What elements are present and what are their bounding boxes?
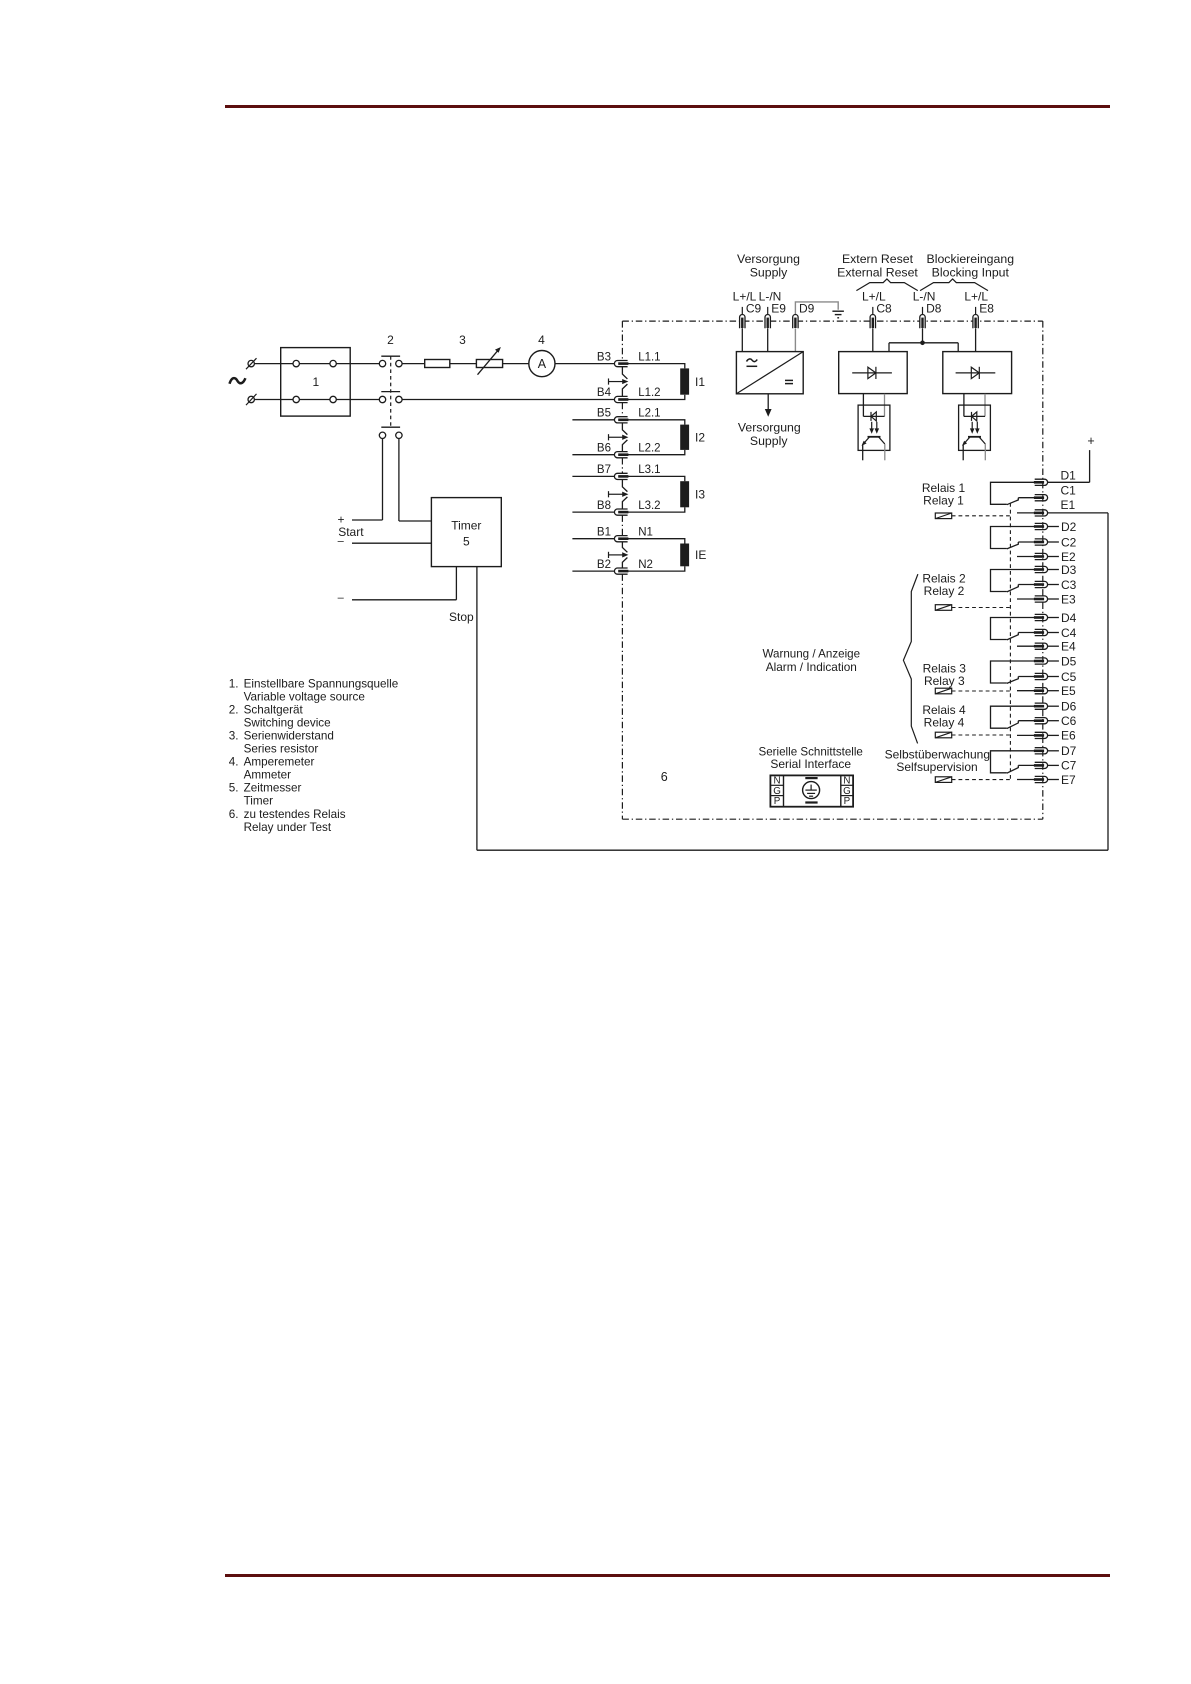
wire box1 to switch lower — [336, 399, 379, 401]
tick E5 — [1048, 690, 1059, 692]
svg-text:L3.1: L3.1 — [638, 464, 660, 476]
terminal D9 — [793, 315, 798, 329]
serial PE circle — [803, 782, 820, 799]
contact E6 wire — [1017, 734, 1035, 736]
svg-text:A: A — [538, 357, 547, 371]
label D4 — [1061, 611, 1077, 625]
label D1 — [1061, 468, 1077, 482]
contact E5 wire — [1017, 690, 1035, 692]
svg-text:I1: I1 — [695, 375, 705, 389]
contact E2 wire — [1017, 556, 1035, 558]
brace under External Reset — [856, 279, 917, 291]
svg-text:B1: B1 — [597, 526, 611, 538]
svg-text:B3: B3 — [597, 351, 611, 363]
label C4 — [1061, 626, 1077, 640]
blocking optocoupler light arrows — [970, 422, 980, 434]
svg-text:L3.2: L3.2 — [638, 500, 660, 512]
label 3 — [459, 333, 466, 347]
wire stub above C9 — [741, 307, 743, 315]
svg-text:B4: B4 — [597, 387, 612, 399]
label Start — [338, 525, 364, 539]
blocking optocoupler emitter leg — [962, 445, 964, 460]
svg-text:Amperemeter: Amperemeter — [244, 756, 315, 769]
Relay 4 coil linkage dashed — [952, 734, 1010, 736]
AC symbol in supply box — [747, 359, 758, 366]
contact E1 wire — [1017, 512, 1035, 514]
contact C3 wire — [1018, 584, 1034, 586]
tick E7 — [1048, 779, 1059, 781]
label Selbstüberwachung — [885, 748, 990, 762]
wire variable resistor to ammeter — [503, 363, 529, 365]
label L2.2 — [638, 442, 660, 454]
label - (stop minus) — [338, 592, 345, 604]
serial top bar — [805, 777, 817, 779]
svg-text:N2: N2 — [638, 559, 653, 571]
heading Supply — [750, 266, 788, 280]
label L1.2 — [638, 387, 660, 399]
source terminal lower (plug with slash) — [246, 394, 257, 405]
terminal C8 — [870, 315, 875, 329]
contact E7 wire — [1017, 779, 1035, 781]
wire right rail vertical — [1107, 513, 1109, 850]
svg-text:E9: E9 — [771, 301, 786, 315]
svg-text:E8: E8 — [979, 301, 994, 315]
serial right cell rows — [841, 785, 853, 795]
contact blade D4/C4 — [1007, 633, 1019, 640]
terminal C1 — [1034, 495, 1048, 501]
Selfsupervision coil linkage dashed — [952, 779, 1010, 781]
alarm group brace — [903, 574, 918, 743]
svg-text:Serial Interface: Serial Interface — [770, 757, 851, 771]
blocking input box — [943, 352, 1012, 394]
CT winding kink I1 lower — [622, 384, 627, 396]
label C8 — [876, 301, 892, 315]
label Selfsupervision — [896, 760, 977, 774]
svg-text:Relay under Test: Relay under Test — [244, 821, 332, 834]
svg-text:IE: IE — [695, 548, 706, 562]
serial letter G left — [773, 786, 781, 797]
wire junction to blocking box — [957, 343, 959, 352]
svg-text:L2.2: L2.2 — [638, 442, 660, 454]
label C5 — [1061, 670, 1077, 684]
tick D7 — [1048, 750, 1059, 752]
wire C9 down to supply box — [741, 328, 743, 351]
label Relay 2 — [924, 584, 965, 598]
wire switch pole3 left down — [382, 439, 384, 521]
tick C6 — [1048, 720, 1059, 722]
label L+/L (C8) — [862, 290, 886, 304]
wire switch to resistor 3 — [402, 363, 425, 365]
relay box 6 left edge seg B4-B5 (dash-dot) — [621, 403, 623, 417]
grey wire D9 down to supply box — [794, 328, 796, 351]
CT winding kink IE lower — [622, 558, 627, 568]
label B4 — [597, 387, 612, 399]
label E3 — [1061, 592, 1076, 606]
Relay 2 coil linkage dashed — [952, 607, 1010, 609]
svg-text:3: 3 — [459, 333, 466, 347]
contact E3 wire — [1017, 598, 1035, 600]
label E1 — [1061, 498, 1076, 512]
supply output arrow — [765, 394, 772, 417]
svg-text:Zeitmesser: Zeitmesser — [244, 782, 302, 795]
label Alarm / Indication — [766, 660, 857, 674]
svg-text:3.: 3. — [229, 730, 239, 743]
svg-text:B6: B6 — [597, 442, 611, 454]
svg-text:L1.1: L1.1 — [638, 351, 660, 363]
label L3.2 — [638, 500, 660, 512]
wire plus to switch pole3 — [352, 519, 383, 521]
label L2.1 — [638, 408, 660, 420]
heading Serielle Schnittstelle — [758, 745, 862, 758]
terminal D6 — [1034, 703, 1048, 709]
terminal D5 — [1034, 658, 1048, 664]
label Versorgung (below) — [738, 421, 801, 435]
svg-text:–: – — [338, 592, 345, 604]
svg-text:Versorgung: Versorgung — [738, 421, 801, 435]
svg-text:E2: E2 — [1061, 550, 1076, 564]
label Warnung / Anzeige — [763, 648, 861, 661]
svg-text:Serienwiderstand: Serienwiderstand — [244, 730, 334, 743]
ammeter 4 circle — [529, 351, 555, 377]
blocking optocoupler outline — [959, 405, 991, 450]
tick E6 — [1048, 734, 1059, 736]
AC source symbol ~ — [230, 378, 246, 384]
reset wire reset box to optocoupler left — [862, 394, 864, 417]
terminal E5 — [1034, 688, 1048, 694]
relay box 6 left edge seg below B2 (dash-dot) — [621, 574, 623, 819]
svg-text:I2: I2 — [695, 431, 705, 445]
label B6 — [597, 442, 611, 454]
label E2 — [1061, 550, 1076, 564]
serial letter G right — [843, 786, 851, 797]
svg-text:2: 2 — [387, 333, 394, 347]
CT winding kink IE upper — [622, 542, 627, 552]
terminal E2 — [1034, 553, 1048, 559]
svg-text:D7: D7 — [1061, 744, 1077, 758]
terminal E3 — [1034, 596, 1048, 602]
svg-text:B5: B5 — [597, 408, 611, 420]
current input block I1 — [680, 368, 689, 394]
svg-text:2.: 2. — [229, 703, 239, 716]
wire box1 internal lower — [299, 399, 330, 401]
svg-text:C7: C7 — [1061, 759, 1077, 773]
terminal C3 — [1034, 581, 1048, 587]
box1 contact lower-right — [330, 396, 336, 402]
wire B3 to burden I1 — [628, 364, 685, 369]
contact C2 wire — [1018, 541, 1034, 543]
serial PE symbol — [805, 785, 816, 797]
tick E4 — [1048, 645, 1059, 647]
svg-text:E3: E3 — [1061, 592, 1076, 606]
wire switch pole3 right down — [398, 439, 400, 522]
label 1 — [313, 375, 320, 389]
diode in blocking box — [956, 367, 996, 379]
terminal C7 — [1034, 762, 1048, 768]
blocking optocoupler collector leg — [984, 444, 986, 460]
switch 2 linkage bar bottom — [381, 426, 400, 428]
svg-text:Timer: Timer — [451, 519, 481, 533]
wire lower terminal to box 1 — [254, 399, 293, 401]
label C9 — [746, 301, 762, 315]
grey wire D9 to earth — [795, 302, 838, 314]
terminal B4 — [614, 396, 628, 402]
terminal E6 — [1034, 732, 1048, 738]
serial bottom bar — [805, 801, 817, 803]
brace under Blocking Input — [920, 279, 988, 291]
wire E9 down to supply box — [767, 328, 769, 351]
heading External Reset — [837, 266, 918, 280]
wire stub left of B6 — [572, 454, 614, 456]
label B8 — [597, 500, 611, 512]
wire burden I1 to B4 — [628, 395, 685, 400]
svg-text:B2: B2 — [597, 559, 611, 571]
tick E3 — [1048, 598, 1059, 600]
svg-text:D5: D5 — [1061, 654, 1077, 668]
relay under test box 6 top edge (dash-dot) — [622, 320, 1042, 322]
wire E8 down to blocking box — [975, 328, 977, 351]
terminal E1 — [1034, 510, 1048, 516]
serial interface box — [770, 775, 853, 806]
label B2 — [597, 559, 611, 571]
plus rail vertical — [1089, 450, 1091, 482]
label D9 — [799, 301, 815, 315]
contact D7 fixed wire — [991, 751, 1035, 773]
box1 contact upper-right — [330, 360, 336, 366]
svg-text:B7: B7 — [597, 464, 611, 476]
svg-text:E6: E6 — [1061, 729, 1076, 743]
terminal E8 — [973, 315, 978, 329]
label E7 — [1061, 773, 1076, 787]
wire stub left of B8 — [572, 511, 614, 513]
tick D6 — [1048, 705, 1059, 707]
current input block I2 — [680, 425, 689, 450]
svg-text:Relay 3: Relay 3 — [924, 674, 965, 688]
svg-text:C6: C6 — [1061, 714, 1077, 728]
label B7 — [597, 464, 611, 476]
CT winding kink I2 lower — [622, 440, 627, 452]
svg-text:Blocking Input: Blocking Input — [932, 266, 1010, 280]
label D3 — [1061, 563, 1077, 577]
wire B5 to burden I2 — [628, 420, 685, 425]
wire resistor to variable resistor — [450, 363, 477, 365]
terminal C6 — [1034, 718, 1048, 724]
switch 2 pole1 left contact — [379, 360, 385, 366]
current direction arrow I2 — [609, 434, 629, 440]
contact C7 wire — [1018, 764, 1034, 766]
blocking optocoupler phototransistor — [962, 437, 985, 446]
wire stub left of B5 — [572, 419, 614, 421]
Relay 1 coil linkage dashed — [952, 515, 1010, 517]
CT winding kink I3 upper — [622, 480, 627, 492]
wire lower row to terminal B4 — [402, 399, 614, 401]
contact D5 fixed wire — [991, 661, 1035, 683]
serial letter N right — [843, 776, 850, 787]
Relay 2 coil — [935, 605, 951, 611]
svg-text:5: 5 — [463, 535, 470, 549]
contact D3 fixed wire — [991, 570, 1035, 592]
wire start minus to timer — [352, 542, 431, 544]
switch 2 linkage bar top — [381, 355, 400, 357]
switch 2 pole3 right contact — [396, 432, 402, 438]
serial letter N left — [773, 776, 780, 787]
contact C6 wire — [1018, 720, 1034, 722]
earth symbol — [832, 311, 844, 318]
serial letter P right — [844, 796, 851, 807]
svg-text:D4: D4 — [1061, 611, 1077, 625]
wire B7 to burden I3 — [628, 476, 685, 481]
terminal D1 — [1034, 479, 1048, 485]
label C1 — [1061, 483, 1077, 497]
heading Extern Reset — [842, 252, 914, 266]
terminal E7 — [1034, 776, 1048, 782]
wire D8 down to junction — [922, 328, 924, 343]
terminal D8 — [920, 315, 925, 329]
svg-text:External Reset: External Reset — [837, 266, 918, 280]
label Relais 4 — [922, 703, 966, 717]
label C3 — [1061, 578, 1077, 592]
svg-text:Extern Reset: Extern Reset — [842, 252, 914, 266]
contact D1 fixed wire — [991, 482, 1035, 504]
terminal E9 — [765, 315, 770, 329]
svg-text:D2: D2 — [1061, 520, 1077, 534]
switch 2 pole3 left contact — [379, 432, 385, 438]
wire stub above C8 — [872, 307, 874, 315]
DC symbol in supply box — [785, 380, 793, 383]
label E9 — [771, 301, 786, 315]
svg-text:C5: C5 — [1061, 670, 1077, 684]
wire C8 down to reset box — [872, 328, 874, 351]
terminal B2 — [614, 568, 628, 574]
svg-text:L2.1: L2.1 — [638, 408, 660, 420]
label L-/N (E9) — [759, 290, 782, 304]
svg-text:D8: D8 — [926, 301, 942, 315]
external reset input box — [839, 352, 908, 394]
variable voltage source box 1 — [281, 348, 351, 417]
label Relais 1 — [922, 481, 966, 495]
serial left cell rows — [770, 785, 783, 795]
svg-text:Series resistor: Series resistor — [244, 743, 319, 756]
legend list — [229, 677, 398, 834]
label Timer — [451, 519, 481, 533]
wire junction horizontal — [889, 342, 958, 344]
svg-text:Selfsupervision: Selfsupervision — [896, 760, 977, 774]
serial letter P left — [774, 796, 781, 807]
svg-text:C3: C3 — [1061, 578, 1077, 592]
label Relay 4 — [924, 716, 965, 730]
relay box 6 right edge (dash-dot) — [1042, 321, 1044, 819]
svg-text:Versorgung: Versorgung — [737, 252, 800, 266]
tick C5 — [1048, 676, 1059, 678]
wire switch pole3 to timer — [399, 520, 432, 522]
switch 2 linkage bar middle — [381, 391, 400, 393]
label - (start minus) — [338, 535, 345, 547]
reset optocoupler outline — [858, 405, 890, 450]
current direction arrow I3 — [609, 491, 629, 497]
terminal B1 — [614, 536, 628, 542]
tick C2 — [1048, 541, 1059, 543]
junction dot D8 — [920, 341, 925, 346]
wire stub above E9 — [767, 307, 769, 315]
label C2 — [1061, 535, 1077, 549]
svg-text:–: – — [338, 535, 345, 547]
label I2 — [695, 431, 705, 445]
relay box 6 left edge seg above B3 (dash-dot) — [621, 321, 623, 360]
label 6 — [661, 770, 668, 784]
relay box 6 left edge seg B8-B1 (dash-dot) — [621, 515, 623, 535]
current direction arrow I1 — [609, 378, 629, 384]
label I1 — [695, 375, 705, 389]
contact D6 fixed wire — [991, 706, 1035, 728]
terminal D7 — [1034, 748, 1048, 754]
svg-text:D3: D3 — [1061, 563, 1077, 577]
svg-text:Timer: Timer — [244, 795, 274, 808]
tick D4 — [1048, 617, 1059, 619]
power supply box — [736, 352, 803, 394]
label Relay 3 — [924, 674, 965, 688]
wire E1 to right rail — [1048, 512, 1108, 514]
label C6 — [1061, 714, 1077, 728]
switch 2 linkage dashed line — [390, 356, 392, 427]
svg-text:Supply: Supply — [750, 266, 788, 280]
current direction arrow IE — [609, 552, 629, 558]
wire stub left of B2 — [572, 570, 614, 572]
label 5 — [463, 535, 470, 549]
label E6 — [1061, 729, 1076, 743]
label N1 — [638, 526, 653, 538]
svg-text:Ammeter: Ammeter — [244, 769, 292, 782]
svg-text:Supply: Supply — [750, 434, 788, 448]
current input block IE — [680, 544, 689, 567]
terminal C2 — [1034, 539, 1048, 545]
svg-text:C9: C9 — [746, 301, 762, 315]
reset optocoupler collector leg — [884, 444, 886, 460]
terminal D2 — [1034, 523, 1048, 529]
wire stop minus horizontal — [352, 599, 456, 601]
svg-text:4: 4 — [538, 333, 545, 347]
svg-text:C8: C8 — [876, 301, 892, 315]
wire stub above E8 — [975, 307, 977, 315]
relay box 6 left edge seg B6-B7 (dash-dot) — [621, 458, 623, 473]
wire box1 to switch upper — [336, 363, 379, 365]
CT winding kink I2 upper — [622, 423, 627, 435]
svg-text:B8: B8 — [597, 500, 611, 512]
series resistor 3 box — [425, 360, 450, 368]
svg-text:E7: E7 — [1061, 773, 1076, 787]
label Relais 2 — [922, 572, 966, 586]
wire bottom return to right rail — [477, 849, 1108, 851]
terminal E4 — [1034, 643, 1048, 649]
label D5 — [1061, 654, 1077, 668]
reset optocoupler phototransistor — [862, 437, 885, 446]
svg-text:1: 1 — [313, 375, 320, 389]
svg-text:D1: D1 — [1061, 468, 1077, 482]
label Relais 3 — [923, 662, 967, 676]
svg-text:Schaltgerät: Schaltgerät — [244, 703, 304, 716]
page footer rule — [225, 1574, 1110, 1577]
wire B1 to burden IE — [628, 539, 685, 544]
svg-text:zu testendes Relais: zu testendes Relais — [244, 808, 346, 821]
svg-text:I3: I3 — [695, 488, 705, 502]
svg-text:Relay 2: Relay 2 — [924, 584, 965, 598]
terminal B8 — [614, 509, 628, 515]
svg-text:E5: E5 — [1061, 684, 1076, 698]
wire stub left of B1 — [572, 538, 614, 540]
terminal B7 — [614, 473, 628, 479]
label E4 — [1061, 640, 1076, 654]
label 2 — [387, 333, 394, 347]
wire stub left of B7 — [572, 475, 614, 477]
contact blade D6/C6 — [1007, 721, 1019, 729]
